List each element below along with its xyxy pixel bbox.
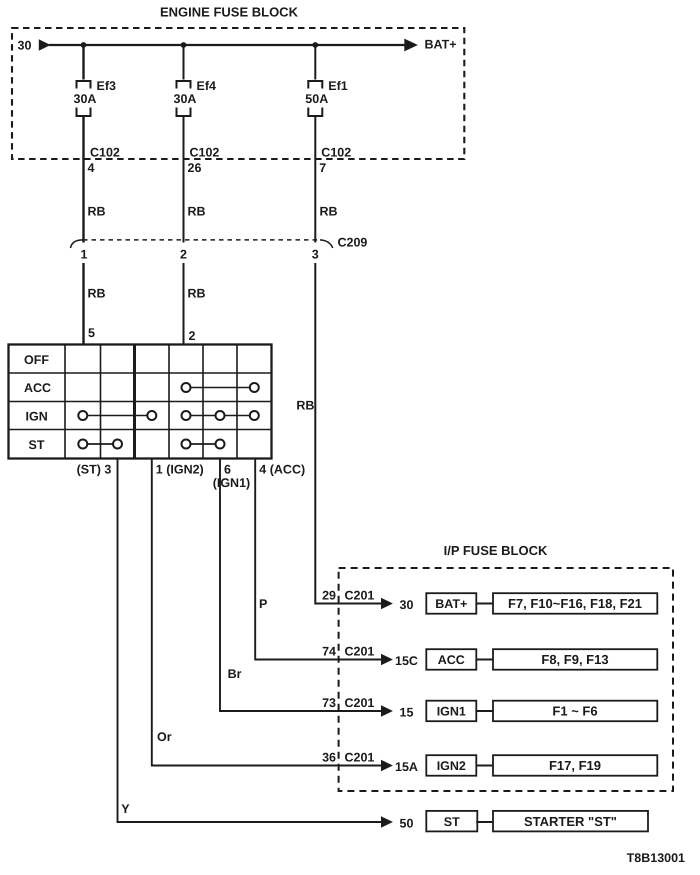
svg-text:RB: RB (188, 287, 206, 301)
svg-text:RB: RB (88, 287, 106, 301)
svg-text:I/P FUSE BLOCK: I/P FUSE BLOCK (444, 543, 548, 558)
svg-text:15C: 15C (395, 654, 418, 668)
svg-text:C209: C209 (338, 236, 368, 250)
svg-text:4 (ACC): 4 (ACC) (259, 463, 305, 477)
svg-text:C102: C102 (190, 146, 220, 160)
svg-text:30A: 30A (174, 92, 197, 106)
svg-text:C102: C102 (321, 146, 351, 160)
svg-text:RB: RB (296, 399, 314, 413)
svg-text:ENGINE FUSE BLOCK: ENGINE FUSE BLOCK (160, 5, 299, 20)
svg-text:IGN2: IGN2 (437, 759, 466, 773)
svg-text:Y: Y (121, 802, 130, 816)
svg-text:Ef4: Ef4 (197, 79, 217, 93)
svg-text:26: 26 (188, 161, 202, 175)
svg-text:C201: C201 (345, 589, 375, 603)
svg-text:ST: ST (444, 815, 460, 829)
svg-text:C201: C201 (345, 751, 375, 765)
svg-text:ACC: ACC (438, 653, 465, 667)
svg-text:IGN: IGN (26, 410, 48, 424)
svg-text:30A: 30A (74, 92, 97, 106)
svg-text:7: 7 (319, 161, 326, 175)
svg-text:(ST) 3: (ST) 3 (77, 463, 112, 477)
svg-text:C201: C201 (345, 696, 375, 710)
svg-text:50A: 50A (305, 92, 328, 106)
svg-text:5: 5 (88, 326, 95, 340)
svg-text:3: 3 (312, 248, 319, 262)
svg-text:BAT+: BAT+ (435, 597, 467, 611)
svg-text:STARTER "ST": STARTER "ST" (524, 814, 617, 829)
svg-text:73: 73 (322, 696, 336, 710)
svg-text:2: 2 (180, 248, 187, 262)
svg-text:30: 30 (18, 39, 32, 53)
svg-text:2: 2 (189, 329, 196, 343)
svg-text:F17, F19: F17, F19 (549, 758, 601, 773)
svg-text:Br: Br (228, 667, 242, 681)
svg-text:4: 4 (88, 161, 95, 175)
svg-text:50: 50 (400, 817, 414, 831)
svg-text:F1 ~ F6: F1 ~ F6 (552, 704, 597, 719)
svg-text:ST: ST (29, 438, 45, 452)
svg-text:F7, F10~F16, F18, F21: F7, F10~F16, F18, F21 (508, 596, 642, 611)
svg-text:RB: RB (88, 205, 106, 219)
svg-text:T8B13001: T8B13001 (627, 851, 685, 865)
svg-text:1 (IGN2): 1 (IGN2) (156, 463, 204, 477)
svg-text:36: 36 (322, 751, 336, 765)
svg-text:(IGN1): (IGN1) (213, 476, 251, 490)
svg-text:74: 74 (322, 645, 336, 659)
svg-text:6: 6 (224, 463, 231, 477)
svg-text:29: 29 (322, 589, 336, 603)
svg-text:RB: RB (188, 205, 206, 219)
svg-text:C102: C102 (90, 146, 120, 160)
svg-text:F8, F9, F13: F8, F9, F13 (541, 652, 608, 667)
svg-text:Ef3: Ef3 (97, 79, 117, 93)
svg-text:P: P (259, 597, 267, 611)
svg-text:30: 30 (400, 598, 414, 612)
svg-text:15: 15 (400, 706, 414, 720)
svg-text:C201: C201 (345, 645, 375, 659)
svg-text:ACC: ACC (24, 381, 51, 395)
svg-text:IGN1: IGN1 (437, 705, 466, 719)
svg-text:1: 1 (81, 248, 88, 262)
svg-text:RB: RB (320, 205, 338, 219)
svg-text:Ef1: Ef1 (328, 79, 348, 93)
svg-text:Or: Or (157, 730, 172, 744)
svg-text:OFF: OFF (24, 353, 49, 367)
svg-text:15A: 15A (395, 760, 418, 774)
svg-text:BAT+: BAT+ (425, 38, 457, 52)
